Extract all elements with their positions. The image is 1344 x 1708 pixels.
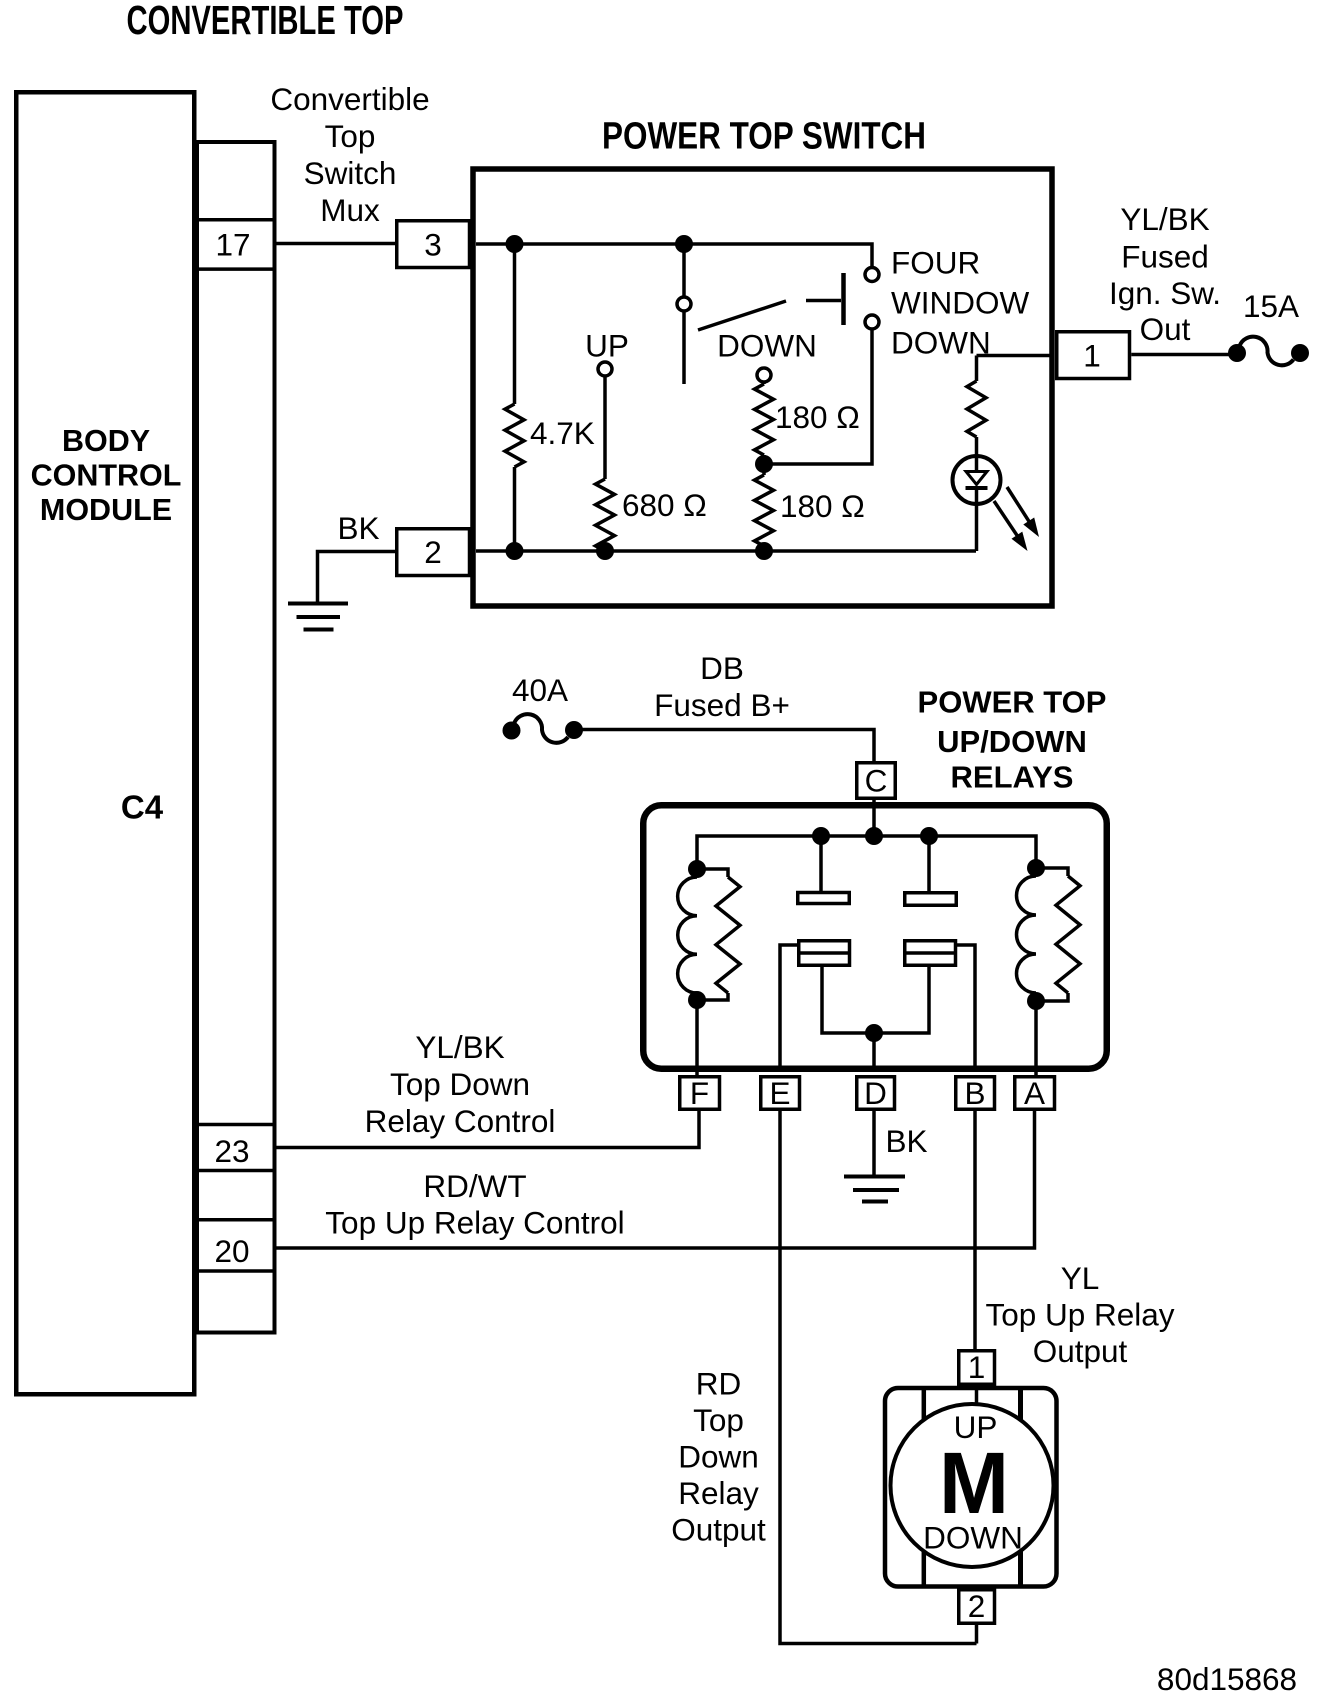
label YL/BK Top Down Relay Control bbox=[365, 1029, 556, 1139]
svg-text:180 Ω: 180 Ω bbox=[775, 399, 860, 435]
LED indicator bbox=[953, 456, 1001, 504]
contact UP bbox=[598, 362, 612, 376]
svg-text:Relay: Relay bbox=[678, 1475, 759, 1511]
svg-text:3: 3 bbox=[424, 227, 442, 263]
motor rotor bbox=[891, 1404, 1054, 1567]
motor brush right bbox=[1018, 1388, 1023, 1587]
wire pin B to motor pin 1 bbox=[973, 1111, 977, 1349]
wire LED branch to pin 1 bbox=[977, 354, 1051, 358]
label YL Top Up Relay Output bbox=[985, 1260, 1174, 1369]
svg-text:D: D bbox=[864, 1075, 887, 1111]
svg-text:17: 17 bbox=[215, 227, 250, 263]
svg-text:UP/DOWN: UP/DOWN bbox=[937, 724, 1087, 759]
relay coil top-down (left) bbox=[678, 860, 740, 1009]
svg-text:POWER TOP: POWER TOP bbox=[918, 685, 1107, 720]
junction rail left bbox=[506, 235, 524, 253]
right relay armature contact bbox=[882, 941, 975, 1069]
wire motor pin2 down bbox=[975, 1625, 979, 1644]
motor brush left bbox=[922, 1388, 927, 1587]
label RD/WT Top Up Relay Control bbox=[325, 1168, 624, 1241]
wire switch top rail bbox=[476, 244, 872, 268]
motor pin 2 box bbox=[959, 1588, 995, 1624]
pin 23 bbox=[197, 1125, 275, 1171]
relay coil top-up (right) bbox=[1017, 859, 1081, 1010]
svg-text:Top Down: Top Down bbox=[390, 1066, 530, 1102]
pin C box bbox=[857, 763, 896, 799]
label Convertible Top Switch Mux bbox=[270, 81, 429, 228]
svg-text:FOUR: FOUR bbox=[891, 245, 980, 281]
junction bottom 1 bbox=[506, 542, 524, 560]
motor body bbox=[885, 1388, 1057, 1587]
resistor 180 ohm lower bbox=[755, 475, 774, 551]
switch blade bbox=[698, 301, 786, 330]
svg-text:Convertible: Convertible bbox=[270, 81, 429, 117]
wire pin E to motor pin 2 bbox=[780, 1111, 977, 1644]
ground BCM side bbox=[288, 604, 348, 630]
wire pin1 to rotor bbox=[975, 1386, 979, 1412]
left relay fixed contact bbox=[798, 845, 850, 904]
svg-text:Top Up Relay Control: Top Up Relay Control bbox=[325, 1205, 624, 1241]
svg-text:C: C bbox=[865, 763, 888, 799]
svg-text:DB: DB bbox=[700, 650, 744, 686]
wire pin C to rail bbox=[872, 800, 876, 837]
svg-text:B: B bbox=[964, 1075, 985, 1111]
resistor 4.7K bbox=[505, 244, 524, 551]
svg-text:Relay Control: Relay Control bbox=[365, 1103, 556, 1139]
contact four window down lower bbox=[865, 315, 879, 329]
svg-text:Ign. Sw.: Ign. Sw. bbox=[1109, 275, 1221, 311]
junction armature common bbox=[865, 1024, 883, 1042]
svg-text:BK: BK bbox=[885, 1123, 927, 1159]
ground relay side bbox=[844, 1177, 905, 1202]
right relay fixed contact bbox=[905, 845, 957, 906]
svg-text:23: 23 bbox=[214, 1133, 249, 1169]
svg-text:2: 2 bbox=[968, 1588, 986, 1624]
svg-text:Out: Out bbox=[1140, 311, 1191, 347]
switch pole wire bbox=[682, 244, 686, 297]
svg-text:4.7K: 4.7K bbox=[530, 415, 595, 451]
wire relay top rail bbox=[697, 836, 1036, 869]
pin 1 box bbox=[1057, 332, 1130, 379]
svg-text:MODULE: MODULE bbox=[40, 493, 172, 527]
wire fuse 40A to pin C bbox=[574, 730, 874, 762]
BCM connector C4 strip bbox=[197, 142, 275, 1333]
wire pin1 to fuse 15A bbox=[1131, 353, 1233, 357]
relay box bbox=[643, 805, 1107, 1069]
label FOUR WINDOW DOWN bbox=[891, 245, 1029, 361]
svg-text:F: F bbox=[690, 1075, 709, 1111]
junction 180 mid bbox=[755, 455, 773, 473]
power top switch box bbox=[473, 169, 1052, 606]
svg-text:80d15868: 80d15868 bbox=[1157, 1661, 1297, 1697]
svg-text:Top: Top bbox=[325, 118, 376, 154]
pin B box bbox=[956, 1075, 995, 1111]
contact four window down upper bbox=[865, 268, 879, 282]
junction bottom 2 bbox=[596, 542, 614, 560]
resistor 680 ohm bbox=[596, 376, 615, 551]
pin 20 bbox=[197, 1220, 275, 1271]
svg-text:2: 2 bbox=[424, 534, 442, 570]
svg-text:Output: Output bbox=[671, 1512, 766, 1548]
junction rail A bbox=[812, 827, 830, 845]
resistor 180 ohm upper bbox=[755, 382, 774, 475]
svg-text:15A: 15A bbox=[1243, 288, 1299, 324]
svg-text:C4: C4 bbox=[121, 789, 164, 826]
wire pin2 to ground bbox=[318, 552, 396, 602]
wire lower contact to junction bbox=[764, 329, 872, 464]
label RD Top Down Relay Output bbox=[671, 1366, 766, 1548]
pin A box bbox=[1015, 1075, 1055, 1111]
junction rail mid bbox=[675, 235, 693, 253]
svg-text:Fused B+: Fused B+ bbox=[654, 687, 790, 723]
switch actuator bbox=[806, 273, 844, 325]
LED resistor bbox=[967, 356, 986, 458]
label DB Fused B+ bbox=[654, 650, 790, 723]
svg-text:POWER TOP SWITCH: POWER TOP SWITCH bbox=[602, 116, 926, 158]
svg-text:Fused: Fused bbox=[1121, 239, 1209, 275]
svg-text:UP: UP bbox=[585, 328, 629, 364]
wire pin A to BCM pin 20 bbox=[277, 1111, 1035, 1248]
switch pole stem bbox=[682, 311, 686, 384]
svg-text:CONVERTIBLE TOP: CONVERTIBLE TOP bbox=[127, 0, 404, 43]
wire pin17 to pin3 bbox=[277, 242, 396, 246]
svg-text:BK: BK bbox=[337, 510, 379, 546]
svg-text:DOWN: DOWN bbox=[923, 1520, 1023, 1556]
svg-text:WINDOW: WINDOW bbox=[891, 285, 1029, 321]
LED arrows bbox=[994, 487, 1039, 551]
contact DOWN bbox=[757, 368, 771, 382]
pin D box bbox=[857, 1075, 895, 1111]
fuse 15A bbox=[1228, 337, 1309, 366]
pin 17 bbox=[197, 220, 275, 269]
title POWER TOP UP/DOWN RELAYS bbox=[918, 685, 1107, 795]
svg-text:CONTROL: CONTROL bbox=[31, 459, 182, 493]
label YL/BK Fused Ign. Sw. Out bbox=[1109, 201, 1221, 347]
fuse 40A bbox=[503, 714, 584, 743]
junction rail B bbox=[865, 827, 883, 845]
pin F box bbox=[680, 1075, 720, 1111]
svg-text:Output: Output bbox=[1033, 1333, 1128, 1369]
svg-text:YL/BK: YL/BK bbox=[1120, 201, 1209, 237]
pin E box bbox=[761, 1075, 800, 1111]
svg-text:A: A bbox=[1024, 1075, 1045, 1111]
svg-text:180 Ω: 180 Ω bbox=[780, 488, 865, 524]
svg-text:Down: Down bbox=[678, 1439, 759, 1475]
wire pin F to BCM pin 23 bbox=[277, 1111, 700, 1148]
svg-text:1: 1 bbox=[1083, 338, 1101, 374]
svg-text:DOWN: DOWN bbox=[717, 328, 817, 364]
svg-text:YL: YL bbox=[1061, 1260, 1100, 1296]
wire pin D to ground bbox=[872, 1111, 876, 1175]
body control module box bbox=[16, 92, 194, 1394]
svg-text:20: 20 bbox=[214, 1233, 249, 1269]
motor pin 1 box bbox=[959, 1349, 995, 1385]
switch pole contact bbox=[677, 297, 691, 311]
junction bottom 3 bbox=[755, 542, 773, 560]
svg-text:Top Up Relay: Top Up Relay bbox=[985, 1297, 1174, 1333]
wire coil left to pin F bbox=[695, 1000, 699, 1075]
wire junction to pin D bbox=[872, 1033, 876, 1069]
svg-text:YL/BK: YL/BK bbox=[415, 1029, 504, 1065]
left relay armature contact bbox=[780, 941, 866, 1069]
svg-text:E: E bbox=[769, 1075, 790, 1111]
junction rail C bbox=[920, 827, 938, 845]
svg-text:Top: Top bbox=[693, 1402, 744, 1438]
svg-text:Mux: Mux bbox=[320, 192, 380, 228]
svg-text:BODY: BODY bbox=[62, 424, 150, 458]
pin 2 box bbox=[397, 529, 470, 576]
LED wire to bottom rail bbox=[975, 503, 979, 551]
svg-text:40A: 40A bbox=[512, 672, 568, 708]
wire coil right to pin A bbox=[1034, 1001, 1038, 1075]
svg-text:1: 1 bbox=[968, 1349, 986, 1385]
svg-text:RD/WT: RD/WT bbox=[423, 1168, 526, 1204]
wire switch bottom rail bbox=[476, 549, 976, 553]
svg-text:680 Ω: 680 Ω bbox=[622, 487, 707, 523]
label BODY CONTROL MODULE bbox=[31, 424, 182, 527]
svg-text:DOWN: DOWN bbox=[891, 325, 991, 361]
svg-text:M: M bbox=[939, 1435, 1009, 1532]
svg-text:RELAYS: RELAYS bbox=[951, 760, 1074, 795]
svg-text:Switch: Switch bbox=[304, 155, 397, 191]
svg-text:RD: RD bbox=[696, 1366, 742, 1402]
pin 3 box bbox=[397, 221, 470, 268]
